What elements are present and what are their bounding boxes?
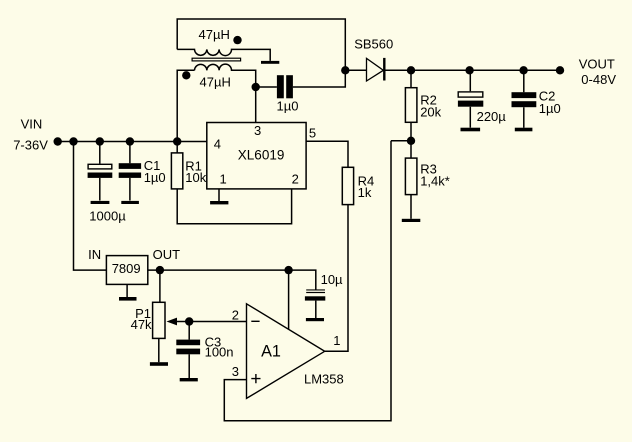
svg-text:1µ0: 1µ0: [277, 98, 299, 113]
wire 7809 OUT rail: [148, 270, 316, 289]
svg-text:IN: IN: [88, 247, 101, 262]
svg-text:47k: 47k: [131, 317, 152, 332]
wire R1 top: [176, 142, 178, 153]
junction V+: [284, 266, 292, 274]
junction R1: [173, 137, 181, 145]
junction diode anode: [341, 66, 349, 74]
ground 7809: [119, 297, 137, 301]
svg-text:2: 2: [292, 171, 299, 186]
diode SB560: [367, 58, 384, 81]
resistor R4: [342, 167, 353, 204]
junction R2 top: [407, 66, 415, 74]
wire R2/R3 junction to feedback: [391, 140, 411, 142]
ground P1: [150, 362, 168, 366]
svg-text:10k: 10k: [185, 170, 206, 185]
capacitor 10u electrolytic: [306, 289, 325, 290]
capacitor C1: [119, 163, 141, 169]
wire P1 wiper to op-amp pin2: [177, 321, 247, 323]
ground XL6019 pin1: [210, 201, 228, 204]
wire cap 1u0 branch: [256, 70, 346, 87]
wire C1 stems: [129, 142, 131, 201]
wire 220u stems: [469, 70, 471, 127]
svg-text:0-48V: 0-48V: [581, 72, 616, 87]
wire R4 top to pin5: [306, 141, 348, 167]
polarity dot top winding: [233, 36, 241, 44]
svg-text:20k: 20k: [420, 104, 441, 119]
wire C3 stems: [188, 322, 190, 379]
svg-text:1: 1: [333, 333, 340, 348]
wire VIN rail: [58, 141, 207, 143]
ground top winding: [261, 61, 279, 64]
ground C1: [121, 201, 139, 204]
junction 220u: [465, 66, 473, 74]
junction 1000u: [96, 137, 104, 145]
wire 10u stem: [315, 301, 317, 318]
regulator 7809: [106, 256, 147, 285]
transformer core: [192, 58, 241, 61]
svg-text:5: 5: [309, 126, 316, 141]
node VOUT terminal: [556, 66, 564, 74]
svg-text:1,4k*: 1,4k*: [420, 173, 450, 188]
svg-text:2: 2: [232, 307, 239, 322]
ground C2: [515, 128, 533, 132]
wire feedback loop: [224, 141, 391, 421]
wire R3 bottom: [410, 195, 412, 219]
resistor R3: [405, 158, 417, 195]
svg-text:47µH: 47µH: [200, 74, 231, 89]
op-amp A1: [247, 304, 325, 399]
inductor L2 bottom 47uH: [195, 64, 256, 122]
svg-text:1µ0: 1µ0: [539, 101, 561, 116]
svg-text:7809: 7809: [112, 261, 141, 276]
potentiometer P1: [153, 302, 165, 338]
svg-text:10µ: 10µ: [321, 272, 343, 287]
capacitor 1u0 coupling: [277, 75, 284, 98]
wire C2 stems: [523, 70, 525, 127]
svg-text:7-36V: 7-36V: [13, 138, 48, 153]
wire XL6019 pin1 gnd stem: [218, 189, 220, 201]
svg-text:SB560: SB560: [354, 37, 393, 52]
svg-text:3: 3: [254, 123, 261, 138]
wire R1 bottom to pin2: [177, 189, 291, 224]
svg-text:1: 1: [220, 171, 227, 186]
wire R2 stems: [410, 70, 412, 158]
ground 10u: [306, 318, 324, 321]
junction R2/R3: [407, 137, 415, 145]
svg-text:4: 4: [214, 136, 221, 151]
wire transformer left vertical: [177, 70, 194, 141]
ground 1000u: [91, 201, 110, 204]
svg-text:100n: 100n: [205, 345, 234, 360]
capacitor C2: [512, 92, 537, 98]
capacitor C3: [176, 340, 200, 346]
svg-text:3: 3: [232, 364, 239, 379]
svg-text:OUT: OUT: [153, 247, 181, 262]
wire 7809 gnd stem: [126, 284, 128, 297]
svg-text:A1: A1: [261, 342, 281, 360]
svg-text:1k: 1k: [358, 185, 372, 200]
junction C1: [126, 137, 134, 145]
resistor R1: [171, 153, 182, 189]
ground C3: [180, 378, 198, 381]
node VIN terminal: [54, 137, 62, 145]
wire op-amp output to R4: [325, 205, 348, 352]
wire 1000u stems: [99, 142, 101, 201]
wire top loop: [177, 19, 345, 70]
svg-text:1000µ: 1000µ: [89, 209, 126, 224]
polarity dot bottom winding: [182, 71, 190, 79]
junction P1 wiper / C3: [185, 317, 193, 325]
capacitor 220u electrolytic: [458, 92, 483, 97]
junction pin3 / 1u0: [252, 83, 260, 91]
svg-text:VIN: VIN: [21, 117, 43, 132]
svg-text:LM358: LM358: [304, 372, 344, 387]
wire V+ to op-amp: [288, 270, 290, 329]
IC XL6019: [207, 123, 306, 189]
svg-text:VOUT: VOUT: [579, 57, 615, 72]
wire P1 bottom stem: [158, 338, 160, 362]
svg-text:XL6019: XL6019: [238, 147, 285, 162]
ground 220u: [461, 128, 481, 132]
capacitor 1000u electrolytic: [88, 164, 112, 169]
svg-text:1µ0: 1µ0: [144, 170, 166, 185]
svg-text:220µ: 220µ: [477, 109, 507, 124]
ground R3: [402, 219, 421, 222]
resistor R2: [405, 88, 417, 123]
junction 7809 OUT: [156, 266, 164, 274]
wire diode cathode / VOUT rail: [385, 69, 560, 71]
wire diode anode: [345, 69, 366, 71]
junction C2: [519, 66, 527, 74]
wire OUT to P1: [159, 270, 161, 302]
junction 7809 branch: [69, 137, 77, 145]
inductor L1 top 47uH: [177, 49, 270, 61]
svg-text:47µH: 47µH: [199, 27, 230, 42]
wire to 7809 IN: [74, 142, 107, 271]
